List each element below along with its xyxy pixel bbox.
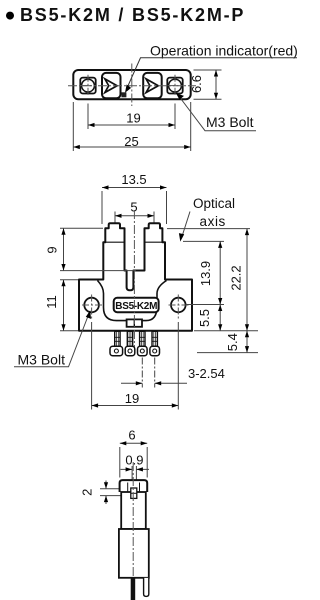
pin 4 — [150, 331, 160, 356]
dim 25 line — [73, 146, 190, 148]
dim 5 line — [115, 215, 154, 217]
pin bottom extension — [197, 352, 258, 354]
M3 bolt leader underline — [14, 314, 89, 367]
dim 11 extensions — [60, 280, 78, 331]
M3 bolt leader arrowhead — [176, 93, 184, 100]
rear pin outline — [144, 578, 149, 597]
left bolt circle — [82, 79, 95, 92]
dim 0.9 extensions — [132, 466, 136, 486]
left bolt crosshair — [81, 75, 96, 97]
svg-text:19: 19 — [126, 110, 140, 125]
dim 6.6 top extension line — [194, 69, 222, 71]
right inner contour — [142, 281, 167, 321]
dim 19 right extension — [174, 104, 176, 130]
svg-text:Operation indicator(red): Operation indicator(red) — [150, 43, 298, 59]
optical axis leader arrowhead — [179, 233, 184, 242]
dim 5.5 line — [219, 305, 221, 331]
svg-text:5.5: 5.5 — [197, 309, 212, 327]
dim 11 line — [63, 280, 65, 331]
pin pitch extension dashes — [142, 358, 154, 388]
front pin (black) — [131, 578, 136, 600]
dim 25 arrows — [73, 145, 80, 149]
right bolt hole — [171, 298, 186, 313]
dim 5 arrows — [115, 214, 122, 218]
optical axis leader diagonal — [182, 212, 191, 239]
svg-text:BS5-K2M: BS5-K2M — [115, 301, 157, 312]
left inner contour — [98, 281, 128, 321]
svg-text:M3 Bolt: M3 Bolt — [18, 352, 66, 368]
dim 13.5 right extension — [166, 191, 168, 224]
svg-text:13.5: 13.5 — [121, 172, 146, 187]
left emitter window — [102, 73, 121, 98]
pin 3 — [138, 331, 148, 356]
svg-text:axis: axis — [200, 214, 226, 229]
pin 2 — [125, 331, 135, 356]
svg-text:6.6: 6.6 — [189, 75, 204, 93]
dim 13.5 line — [102, 187, 167, 189]
svg-text:13.9: 13.9 — [198, 261, 213, 286]
name plate BS5-K2M — [114, 298, 159, 312]
cap window frame lines — [128, 483, 140, 492]
dim 2 extensions — [100, 489, 130, 496]
pin 1 — [110, 331, 123, 356]
body bottom extension (right) — [194, 330, 258, 332]
side body mid section — [121, 492, 146, 529]
left bolt crosshair — [82, 295, 102, 321]
dim 5.4 line — [246, 331, 248, 353]
leader arrowhead at indicator — [125, 85, 131, 93]
front body silhouette — [79, 223, 192, 331]
right bolt circle — [169, 79, 182, 92]
right bolt square — [167, 78, 182, 94]
svg-text:3-2.54: 3-2.54 — [188, 366, 225, 381]
svg-text:11: 11 — [44, 295, 59, 309]
operation indicator square — [121, 92, 126, 97]
svg-text:Optical: Optical — [193, 196, 235, 211]
indicator window on cap — [131, 488, 137, 498]
dim 6 extensions — [120, 447, 147, 478]
dim 9 extensions — [60, 228, 136, 270]
leader line to indicator — [127, 58, 297, 88]
dim 13.5 left extension — [101, 191, 103, 224]
top view vertical centerline — [131, 64, 133, 107]
dim 9 line — [63, 228, 65, 270]
side view vertical centerline — [132, 462, 134, 599]
dim 19 left extension — [87, 104, 89, 130]
right window triangle — [146, 79, 158, 93]
svg-text:22.2: 22.2 — [229, 265, 244, 290]
dim 25 right extension — [190, 102, 192, 151]
title bullet — [6, 12, 14, 20]
dim 19 (front) line — [92, 405, 179, 407]
svg-text:19: 19 — [125, 391, 139, 406]
side body lower section — [119, 529, 149, 578]
optical axis reference extension (13.9 top) — [183, 240, 224, 242]
dim 5 extensions — [115, 212, 154, 227]
dim 3-2.54 line with outside arrows — [121, 382, 187, 384]
right bolt crosshair — [168, 75, 183, 97]
svg-text:6: 6 — [128, 427, 135, 442]
svg-text:0.9: 0.9 — [125, 453, 143, 468]
optical axis leader / prong-top extension line — [167, 228, 250, 230]
dim 0.9 line with outside arrows — [121, 468, 150, 470]
right receiver window — [143, 73, 162, 98]
right bolt crosshair — [169, 295, 189, 321]
dim 13.9 line — [219, 241, 221, 304]
M3 bolt leader arrowhead — [86, 310, 91, 319]
svg-text:5.4: 5.4 — [225, 333, 240, 351]
small window below plate — [127, 319, 142, 326]
left bolt hole — [84, 298, 99, 313]
dim 6.6 arrows — [214, 70, 218, 77]
dim 2 line with outside arrows — [105, 481, 107, 505]
svg-text:2: 2 — [80, 489, 95, 496]
left bolt square — [80, 78, 95, 94]
prong step lines at optical axis — [105, 241, 162, 243]
dim 22.2 line — [246, 229, 248, 331]
bolt center extension (right) — [186, 304, 224, 306]
svg-text:9: 9 — [45, 246, 60, 253]
left window triangle — [105, 79, 117, 93]
dim 6.6 bottom extension line — [194, 98, 222, 100]
svg-text:BS5-K2M / BS5-K2M-P: BS5-K2M / BS5-K2M-P — [20, 5, 245, 25]
svg-text:M3 Bolt: M3 Bolt — [206, 114, 254, 130]
dim 19 line — [88, 124, 175, 126]
dim 25 left extension — [72, 102, 74, 151]
dim 6 line — [120, 442, 147, 444]
side body cap — [120, 480, 148, 492]
front view vertical centerline — [133, 210, 135, 352]
top view body outline — [73, 70, 190, 99]
dim 19 (front) extensions — [92, 322, 179, 410]
M3 bolt leader line — [178, 95, 256, 131]
dim 19 arrows — [88, 123, 95, 127]
svg-text:25: 25 — [124, 134, 138, 149]
top view horizontal centerline — [68, 85, 196, 87]
dim 6.6 line — [215, 70, 217, 99]
dim 13.5 arrows — [102, 185, 109, 189]
